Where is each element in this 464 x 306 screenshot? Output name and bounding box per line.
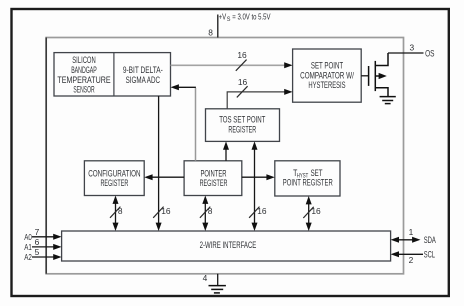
svg-text:16: 16 bbox=[257, 206, 267, 216]
svg-text:REGISTER: REGISTER bbox=[200, 178, 228, 188]
bus TOS register to 2-wire (16) bbox=[254, 147, 256, 226]
svg-text:16: 16 bbox=[161, 206, 171, 216]
block: configuration register bbox=[84, 161, 144, 196]
IC package boundary bbox=[46, 38, 403, 274]
wire comparator to MOSFET gate bbox=[361, 75, 368, 77]
svg-text:5: 5 bbox=[35, 247, 40, 257]
wire SDA pin 1 (bidirectional) bbox=[396, 239, 415, 241]
wire pointer register to ADC feedback bbox=[195, 88, 197, 161]
svg-text:REGISTER: REGISTER bbox=[101, 178, 129, 188]
IC boundary left edge (darker) bbox=[45, 38, 47, 274]
svg-text:8: 8 bbox=[208, 28, 213, 38]
bus slash 16 bbox=[236, 60, 247, 71]
bus slash 16 bbox=[237, 86, 248, 97]
bus configuration register to 2-wire (8) bbox=[115, 201, 117, 227]
svg-text:16: 16 bbox=[311, 206, 321, 216]
svg-text:8: 8 bbox=[118, 206, 123, 216]
bus ADC down to 2-wire (16) bbox=[158, 96, 160, 226]
svg-text:+V: +V bbox=[219, 12, 227, 22]
svg-text:CONFIGURATION: CONFIGURATION bbox=[88, 168, 140, 178]
wire pointer register up to TOS register bbox=[225, 147, 227, 161]
bus slash 8 bbox=[110, 207, 120, 218]
bus pointer register to 2-wire (8) bbox=[204, 201, 206, 227]
svg-text:TEMPERATURE: TEMPERATURE bbox=[57, 75, 110, 85]
ground bbox=[209, 286, 226, 293]
svg-text:8: 8 bbox=[208, 206, 213, 216]
bus slash 8 bbox=[200, 207, 210, 218]
wire SCL pin 2 bbox=[396, 253, 423, 255]
svg-text:SET POINT: SET POINT bbox=[311, 61, 344, 71]
svg-text:SENSOR: SENSOR bbox=[73, 85, 94, 95]
svg-text:HYSTERESIS: HYSTERESIS bbox=[308, 80, 345, 90]
bus slash 16 bbox=[249, 207, 259, 218]
divider between sensor and ADC bbox=[113, 53, 115, 96]
svg-text:2: 2 bbox=[409, 255, 414, 265]
wire TOS register to comparator (16-bit) bbox=[227, 92, 286, 109]
svg-text:= 3.0V to 5.5V: = 3.0V to 5.5V bbox=[232, 12, 270, 22]
block: silicon bandgap temperature sensor + ADC outline bbox=[54, 53, 171, 96]
svg-text:3: 3 bbox=[409, 42, 414, 52]
label +VS = 3.0V to 5.5V bbox=[219, 12, 271, 24]
svg-text:16: 16 bbox=[238, 77, 248, 87]
svg-text:POINTER: POINTER bbox=[200, 168, 226, 178]
block: TOS set point register bbox=[206, 109, 280, 142]
wire MOSFET drain to OS pin 3 bbox=[388, 52, 424, 54]
svg-text:4: 4 bbox=[203, 273, 208, 283]
block: pointer register bbox=[184, 161, 242, 196]
wire pointer register to T-hyst register bbox=[242, 176, 268, 178]
svg-text:A0: A0 bbox=[24, 232, 32, 242]
svg-text:A2: A2 bbox=[24, 252, 32, 262]
wire pointer register to configuration register bbox=[151, 176, 184, 178]
bus slash 16 bbox=[153, 207, 163, 218]
block: T-hyst set point register bbox=[275, 161, 340, 196]
svg-text:9-BIT DELTA-: 9-BIT DELTA- bbox=[123, 65, 163, 75]
label silicon bandgap temperature sensor bbox=[57, 55, 110, 94]
wire A1 pin 6 bbox=[32, 246, 55, 248]
wire A2 pin 5 bbox=[32, 256, 55, 258]
wire +VS pin 8 bbox=[217, 15, 219, 38]
svg-text:SIGMA ADC: SIGMA ADC bbox=[126, 75, 161, 85]
svg-text:BANDGAP: BANDGAP bbox=[71, 65, 97, 75]
svg-text:POINT REGISTER: POINT REGISTER bbox=[283, 178, 333, 188]
label 9-bit delta-sigma ADC bbox=[123, 65, 163, 85]
svg-text:1: 1 bbox=[409, 227, 414, 237]
transistor Q1 (open-drain NMOS) bbox=[369, 53, 388, 97]
block: 2-wire interface bbox=[62, 231, 391, 261]
svg-text:REGISTER: REGISTER bbox=[228, 124, 256, 134]
svg-text:OS: OS bbox=[425, 49, 434, 59]
svg-text:TOS SET POINT: TOS SET POINT bbox=[219, 115, 266, 125]
svg-text:SDA: SDA bbox=[424, 235, 436, 245]
block: set point comparator w/ hysteresis bbox=[293, 49, 362, 102]
wire GND pin 4 bbox=[217, 274, 219, 286]
svg-text:16: 16 bbox=[237, 50, 247, 60]
wire A0 pin 7 bbox=[32, 236, 55, 238]
wire ADC to comparator (16-bit) bbox=[171, 64, 287, 66]
svg-text:COMPARATOR W/: COMPARATOR W/ bbox=[300, 70, 354, 80]
svg-text:SCL: SCL bbox=[424, 249, 435, 259]
svg-text:SET: SET bbox=[311, 168, 323, 178]
svg-text:SILICON: SILICON bbox=[72, 55, 96, 65]
bus slash 16 bbox=[303, 207, 313, 218]
bus T-hyst register to 2-wire (16) bbox=[308, 201, 310, 226]
svg-text:2-WIRE INTERFACE: 2-WIRE INTERFACE bbox=[200, 240, 257, 250]
svg-text:6: 6 bbox=[35, 237, 40, 247]
ground (MOSFET source) bbox=[380, 97, 396, 104]
svg-text:S: S bbox=[227, 16, 231, 23]
svg-text:A1: A1 bbox=[24, 242, 32, 252]
svg-text:7: 7 bbox=[35, 227, 40, 237]
